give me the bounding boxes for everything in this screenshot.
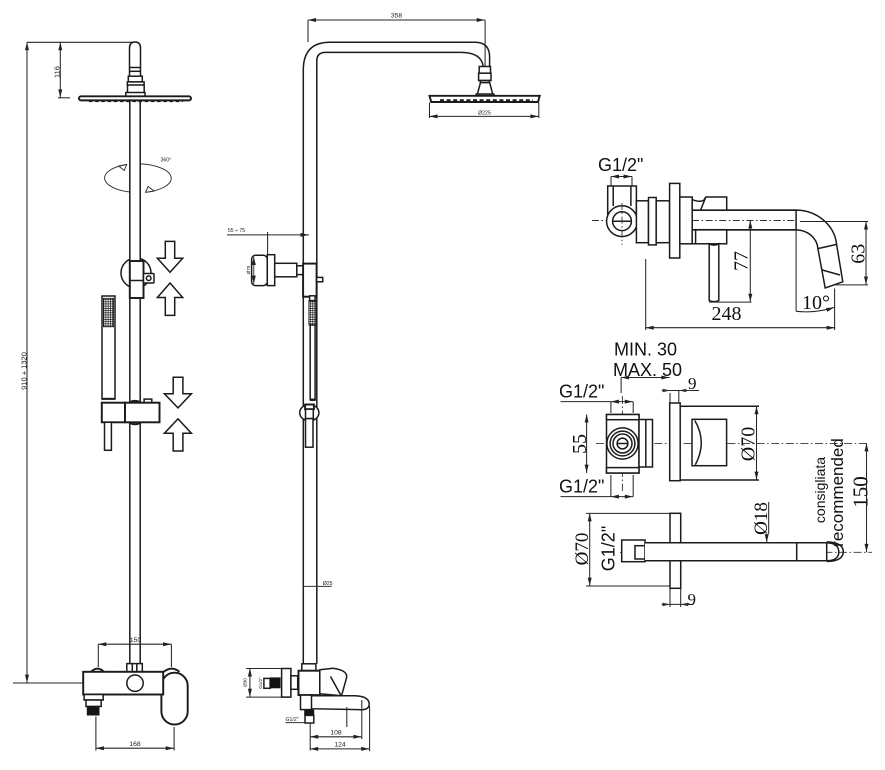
shower head side	[430, 96, 540, 102]
top cap	[607, 415, 640, 420]
centerline	[620, 551, 872, 553]
svg-text:10°: 10°	[802, 292, 830, 314]
svg-text:G1/2": G1/2"	[559, 382, 604, 402]
dimension 168	[95, 717, 97, 751]
D30 dim	[249, 669, 251, 698]
D70 dimension	[756, 406, 758, 480]
head nozzles	[89, 100, 183, 102]
svg-text:recommended: recommended	[828, 438, 847, 547]
holder top tab	[144, 399, 152, 403]
G1/2 dim	[611, 176, 632, 178]
D70 dimension	[586, 512, 670, 514]
holder side ring	[300, 405, 319, 421]
svg-text:124: 124	[334, 742, 346, 749]
head nozzles side	[440, 99, 533, 101]
slider block side	[303, 264, 317, 297]
spout curve	[796, 210, 843, 288]
bottom collar	[302, 664, 316, 672]
pipe-body connector	[127, 664, 143, 672]
dimension 150	[866, 443, 868, 552]
arm flange	[127, 82, 144, 85]
upper up arrow	[157, 283, 182, 315]
connector base	[126, 93, 145, 97]
svg-text:77: 77	[731, 251, 753, 271]
dimension 124	[369, 706, 371, 751]
upper slider block	[130, 261, 144, 298]
housing right	[639, 420, 653, 468]
upper down arrow	[157, 241, 182, 272]
elbow ball	[607, 206, 638, 237]
BOTTOMRIGHT-VIEW	[572, 502, 872, 609]
outlet below	[301, 695, 312, 710]
svg-text:Ø225: Ø225	[478, 110, 491, 116]
slider ring	[121, 258, 151, 288]
lower up arrow	[164, 419, 191, 451]
min-max dimension	[621, 377, 670, 379]
svg-text:150: 150	[130, 637, 142, 644]
bracket flange	[267, 255, 274, 286]
dim 9	[662, 390, 699, 392]
horizontal centerline	[596, 442, 869, 444]
diverter circle	[127, 675, 143, 691]
slider knob	[144, 274, 155, 284]
hand shower side handle	[310, 325, 315, 399]
hand shower side head	[309, 301, 316, 325]
vertical centerline	[621, 396, 623, 491]
svg-text:910 + 1320: 910 + 1320	[19, 352, 28, 390]
mixer body	[83, 672, 163, 695]
wall bracket round body	[252, 255, 268, 285]
D25 leader	[303, 585, 331, 587]
thread nipple dark	[270, 677, 280, 688]
handle lower	[692, 230, 727, 244]
dimension 248	[645, 259, 647, 330]
svg-text:63: 63	[848, 244, 870, 264]
svg-text:consigliata: consigliata	[812, 457, 828, 523]
MIDRIGHT-VIEW	[559, 340, 873, 553]
cartridge circles	[607, 428, 638, 459]
holder right block	[125, 403, 160, 423]
bracket arm	[275, 263, 297, 277]
hand shower	[102, 296, 115, 399]
svg-text:G1/2": G1/2"	[559, 477, 604, 497]
tube centerline re-draw over handle	[692, 220, 802, 222]
svg-text:Ø30: Ø30	[243, 678, 248, 687]
svg-text:G1/2": G1/2"	[598, 155, 643, 175]
connector block	[128, 85, 145, 94]
svg-text:Ø70: Ø70	[738, 427, 760, 461]
tube ring	[796, 543, 798, 561]
left inlet dome	[91, 669, 104, 672]
dimension 116	[59, 42, 61, 98]
svg-text:G1/2": G1/2"	[599, 526, 619, 571]
handle side	[320, 668, 347, 696]
hand shower side neck	[310, 296, 316, 301]
svg-text:MAX. 50: MAX. 50	[613, 360, 682, 380]
dimension 108	[309, 724, 311, 751]
shower arm top pipe	[130, 42, 141, 76]
ball vertical centerline	[621, 203, 623, 245]
extension line top	[27, 41, 133, 43]
dimension D225	[429, 103, 431, 119]
bottom cap	[607, 468, 640, 473]
10 degree note	[795, 230, 797, 311]
55 dimension	[586, 415, 588, 474]
dim 9	[669, 588, 671, 607]
MIDDLE-VIEW	[227, 13, 540, 752]
svg-text:G1/2": G1/2"	[286, 717, 299, 723]
extension line bottom	[13, 682, 83, 684]
svg-text:168: 168	[129, 741, 141, 748]
aerator dark	[87, 706, 100, 715]
spout tube	[645, 543, 827, 561]
nipple	[622, 540, 645, 562]
svg-text:Ø70: Ø70	[246, 265, 251, 274]
knob front	[692, 419, 727, 465]
svg-text:MIN. 30: MIN. 30	[614, 340, 677, 360]
dimension 358	[308, 19, 485, 21]
TOPRIGHT-VIEW	[592, 155, 870, 330]
wall plate	[670, 403, 681, 481]
body right of flange	[680, 197, 692, 244]
clamp arcs	[129, 401, 142, 403]
dimension 63	[865, 222, 867, 285]
svg-text:55: 55	[569, 434, 591, 454]
riser pipe and arm outer edge	[303, 42, 489, 664]
svg-text:360°: 360°	[161, 158, 172, 164]
shower head disc	[79, 96, 191, 100]
main column pipe	[130, 100, 140, 663]
mixer body side	[299, 671, 321, 695]
spout tube to wall	[636, 210, 796, 230]
nut stack	[636, 201, 648, 243]
dimension 150	[98, 643, 171, 645]
wall plate	[670, 513, 681, 588]
LEFT-VIEW	[13, 42, 191, 751]
holder left block	[102, 403, 125, 423]
centerline	[592, 220, 802, 222]
svg-text:116: 116	[52, 66, 61, 78]
svg-text:Ø70: Ø70	[572, 533, 593, 566]
outlet step2	[86, 700, 101, 706]
handle upper	[692, 197, 727, 210]
hand shower hose	[105, 422, 112, 450]
valve body	[608, 186, 637, 214]
wall escutcheon	[670, 183, 680, 258]
svg-text:248: 248	[712, 303, 742, 325]
arm collar	[128, 76, 142, 82]
trim sleeve lines	[680, 405, 759, 407]
valve body square	[607, 415, 640, 474]
svg-text:9: 9	[688, 590, 697, 609]
inlet flange disc	[282, 669, 291, 698]
svg-text:55 ÷ 75: 55 ÷ 75	[228, 228, 245, 234]
svg-text:G1/2": G1/2"	[258, 677, 263, 689]
svg-text:150: 150	[849, 476, 873, 508]
right inlet dome	[164, 669, 180, 672]
lower down arrow	[164, 377, 191, 408]
lever rod	[709, 244, 719, 302]
spout rings	[818, 244, 837, 248]
slider tab side	[317, 277, 323, 281]
svg-text:108: 108	[330, 730, 342, 737]
svg-text:Ø25: Ø25	[323, 581, 333, 587]
overall height dimension 910+1320	[26, 42, 28, 683]
360 degree rotation symbol left arc	[105, 165, 132, 193]
ball joint	[479, 67, 490, 74]
outlet step1	[84, 695, 103, 701]
dimension 77	[749, 221, 751, 303]
tube tip cap	[826, 542, 828, 561]
mini D70 dim	[253, 257, 255, 284]
svg-text:358: 358	[391, 13, 403, 20]
mixer handle capsule	[161, 673, 187, 725]
hose side	[306, 419, 314, 448]
spout side	[309, 696, 369, 710]
360 degree rotation symbol right arc	[141, 164, 171, 192]
riser pipe and arm inner edge	[317, 52, 484, 664]
thread nipple white	[264, 678, 270, 688]
